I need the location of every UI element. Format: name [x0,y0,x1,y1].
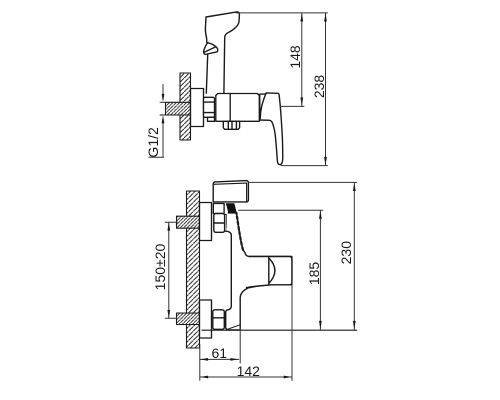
upper inlet stub (hatched) lower view [177,216,200,228]
dimension 142 [200,376,292,379]
wall section (hatched) lower view [187,191,200,348]
dimension 150±20 [165,222,177,318]
G1/2 inlet pipe (hatched) upper view [160,102,191,115]
spray cone of hand shower [204,43,218,55]
black gap shadow under handle [226,203,237,213]
upper hex nut lower view [214,214,226,233]
upper flange below handle [213,204,224,214]
dimension G1/2 leader [149,85,165,158]
svg-text:150±20: 150±20 [152,243,168,290]
upper escutcheon lower view [200,203,212,241]
lower inlet stub (hatched) lower view [177,313,200,325]
dimension 185 [319,211,322,330]
extension: body right edge down [239,329,241,363]
spout arm lower view [247,257,292,288]
wall section (hatched) upper view [180,73,191,140]
svg-text:238: 238 [311,75,327,99]
svg-text:230: 230 [338,241,354,265]
svg-text:185: 185 [306,262,322,286]
svg-text:142: 142 [237,363,261,379]
hose outlet nipple upper view [223,121,239,129]
mixer body lower view [226,213,292,330]
bottom taper line of body [227,325,240,330]
svg-text:G1/2: G1/2 [145,127,161,158]
hand shower head + grip upper view [205,12,239,93]
escutcheon flange upper view [191,89,204,127]
lower escutcheon lower view [200,300,212,338]
svg-text:148: 148 [287,45,303,69]
mixer body upper view [216,94,259,122]
dimension: top extension line upper view [236,12,328,14]
dimension 148 [281,13,304,106]
connection nut upper view [204,97,215,121]
dimension 185 top extension [239,209,323,211]
lower hex nut lower view [213,310,225,330]
dimension 238 [281,13,327,165]
handle lower view [213,181,248,202]
extension: spout tip down [291,286,293,381]
dimension 61 [200,358,239,361]
svg-text:61: 61 [212,345,228,361]
extension: left wall face down [199,345,201,381]
dimension 230 top extension [249,181,357,183]
dimension 230 [353,183,356,330]
lever handle upper view [260,93,283,165]
shared bottom extension line [202,329,357,331]
